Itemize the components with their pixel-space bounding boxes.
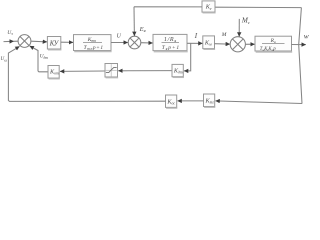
svg-text:U: U [117,34,122,40]
wire converter to S2, label U [111,42,128,44]
block Ktg (tachogenerator) [204,94,216,107]
wire KU to converter block [61,41,73,43]
wire output omega [292,44,306,46]
svg-text:Ея: Ея [139,26,146,33]
wire nonlinearity to Kot [60,70,105,72]
svg-text:Ттпр+1: Ттпр+1 [84,45,104,51]
block Kot (current cutoff coefficient) [48,66,60,79]
summing junction S2 [128,36,141,49]
block armature 1/Rya / (Tya p+1) [153,34,188,51]
Mc load torque input arrow [238,19,240,37]
block Kdt (current sensor) [172,64,184,77]
svg-text:w: w [304,32,309,41]
wire top EMF feedback left segment [134,6,202,8]
block Kos (speed feedback coefficient) [166,95,178,108]
wire S3 to final block [245,43,254,45]
wire Kos left then up into S1 (U omega feedback) [8,46,165,101]
wire Kot left then up into S1 (U dt feedback) [30,46,48,72]
wire branch from I node down to Kdt [184,43,191,71]
block KU (regulator) [47,37,61,50]
wire right vertical riser (feedback tap) [299,8,302,104]
wire Eya drop into S2 [133,7,135,36]
svg-text:1/Rя: 1/Rя [164,37,177,43]
block Ke (EMF coefficient) [202,1,216,13]
summing junction S3 [230,37,245,52]
block converter Kt/(Tt p+1) [74,35,112,52]
svg-text:М: М [221,32,227,38]
svg-text:ТмКеКмр: ТмКеКмр [260,47,277,52]
svg-text:I: I [194,32,198,40]
block nonlinearity (saturation) [105,64,118,78]
wire Km to S3, label M [215,43,230,45]
block mechanical Rya/(Tm Ke Km p) [255,36,292,52]
wire Kdt to nonlinearity [118,70,172,72]
summing junction S1 [18,35,31,48]
wire armature to Km, label I [187,42,203,44]
wire S1 to KU [31,40,47,43]
block Km [203,36,215,49]
wire Ktg to Kos [178,100,204,102]
svg-text:Uдт: Uдт [40,54,49,60]
svg-text:Мс: Мс [241,17,250,25]
wire top EMF feedback right segment [215,6,301,8]
wire S2 to armature block [141,42,153,44]
wire Uz input arrow into S1 [4,40,19,42]
svg-text:Uз: Uз [7,30,13,36]
svg-text:Тяр+1: Тяр+1 [162,45,180,51]
wire bottom speed feedback from riser to Ktg [216,101,303,104]
svg-text:Uω: Uω [0,56,7,62]
